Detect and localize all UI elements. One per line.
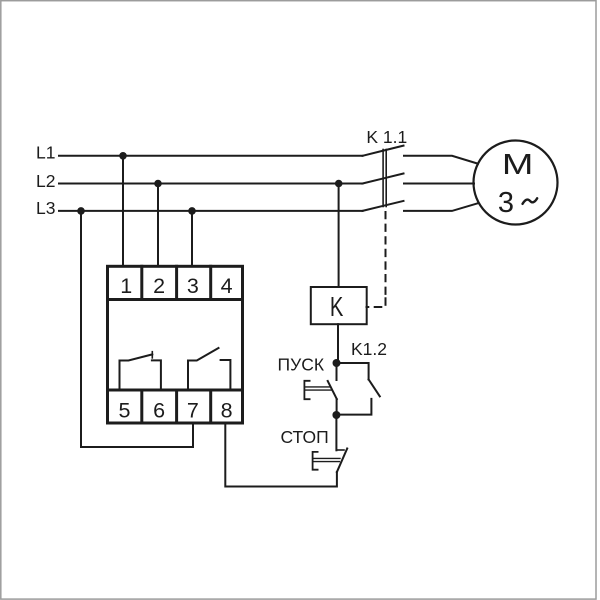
svg-text:ПУСК: ПУСК: [278, 354, 325, 374]
svg-text:5: 5: [119, 399, 131, 423]
svg-text:L2: L2: [36, 171, 55, 191]
svg-text:K: K: [330, 291, 344, 322]
svg-text:K 1.1: K 1.1: [366, 127, 407, 147]
svg-text:3: 3: [498, 187, 514, 219]
svg-text:L1: L1: [36, 143, 55, 163]
svg-text:L3: L3: [36, 198, 55, 218]
svg-text:1: 1: [120, 274, 132, 298]
svg-text:6: 6: [153, 399, 165, 423]
svg-text:M: M: [502, 149, 534, 181]
svg-text:K1.2: K1.2: [351, 339, 387, 359]
svg-text:2: 2: [153, 274, 165, 298]
svg-text:7: 7: [187, 399, 199, 423]
svg-text:8: 8: [221, 399, 233, 423]
svg-text:СТОП: СТОП: [281, 427, 329, 447]
svg-text:4: 4: [221, 274, 233, 298]
svg-text:3: 3: [187, 274, 199, 298]
